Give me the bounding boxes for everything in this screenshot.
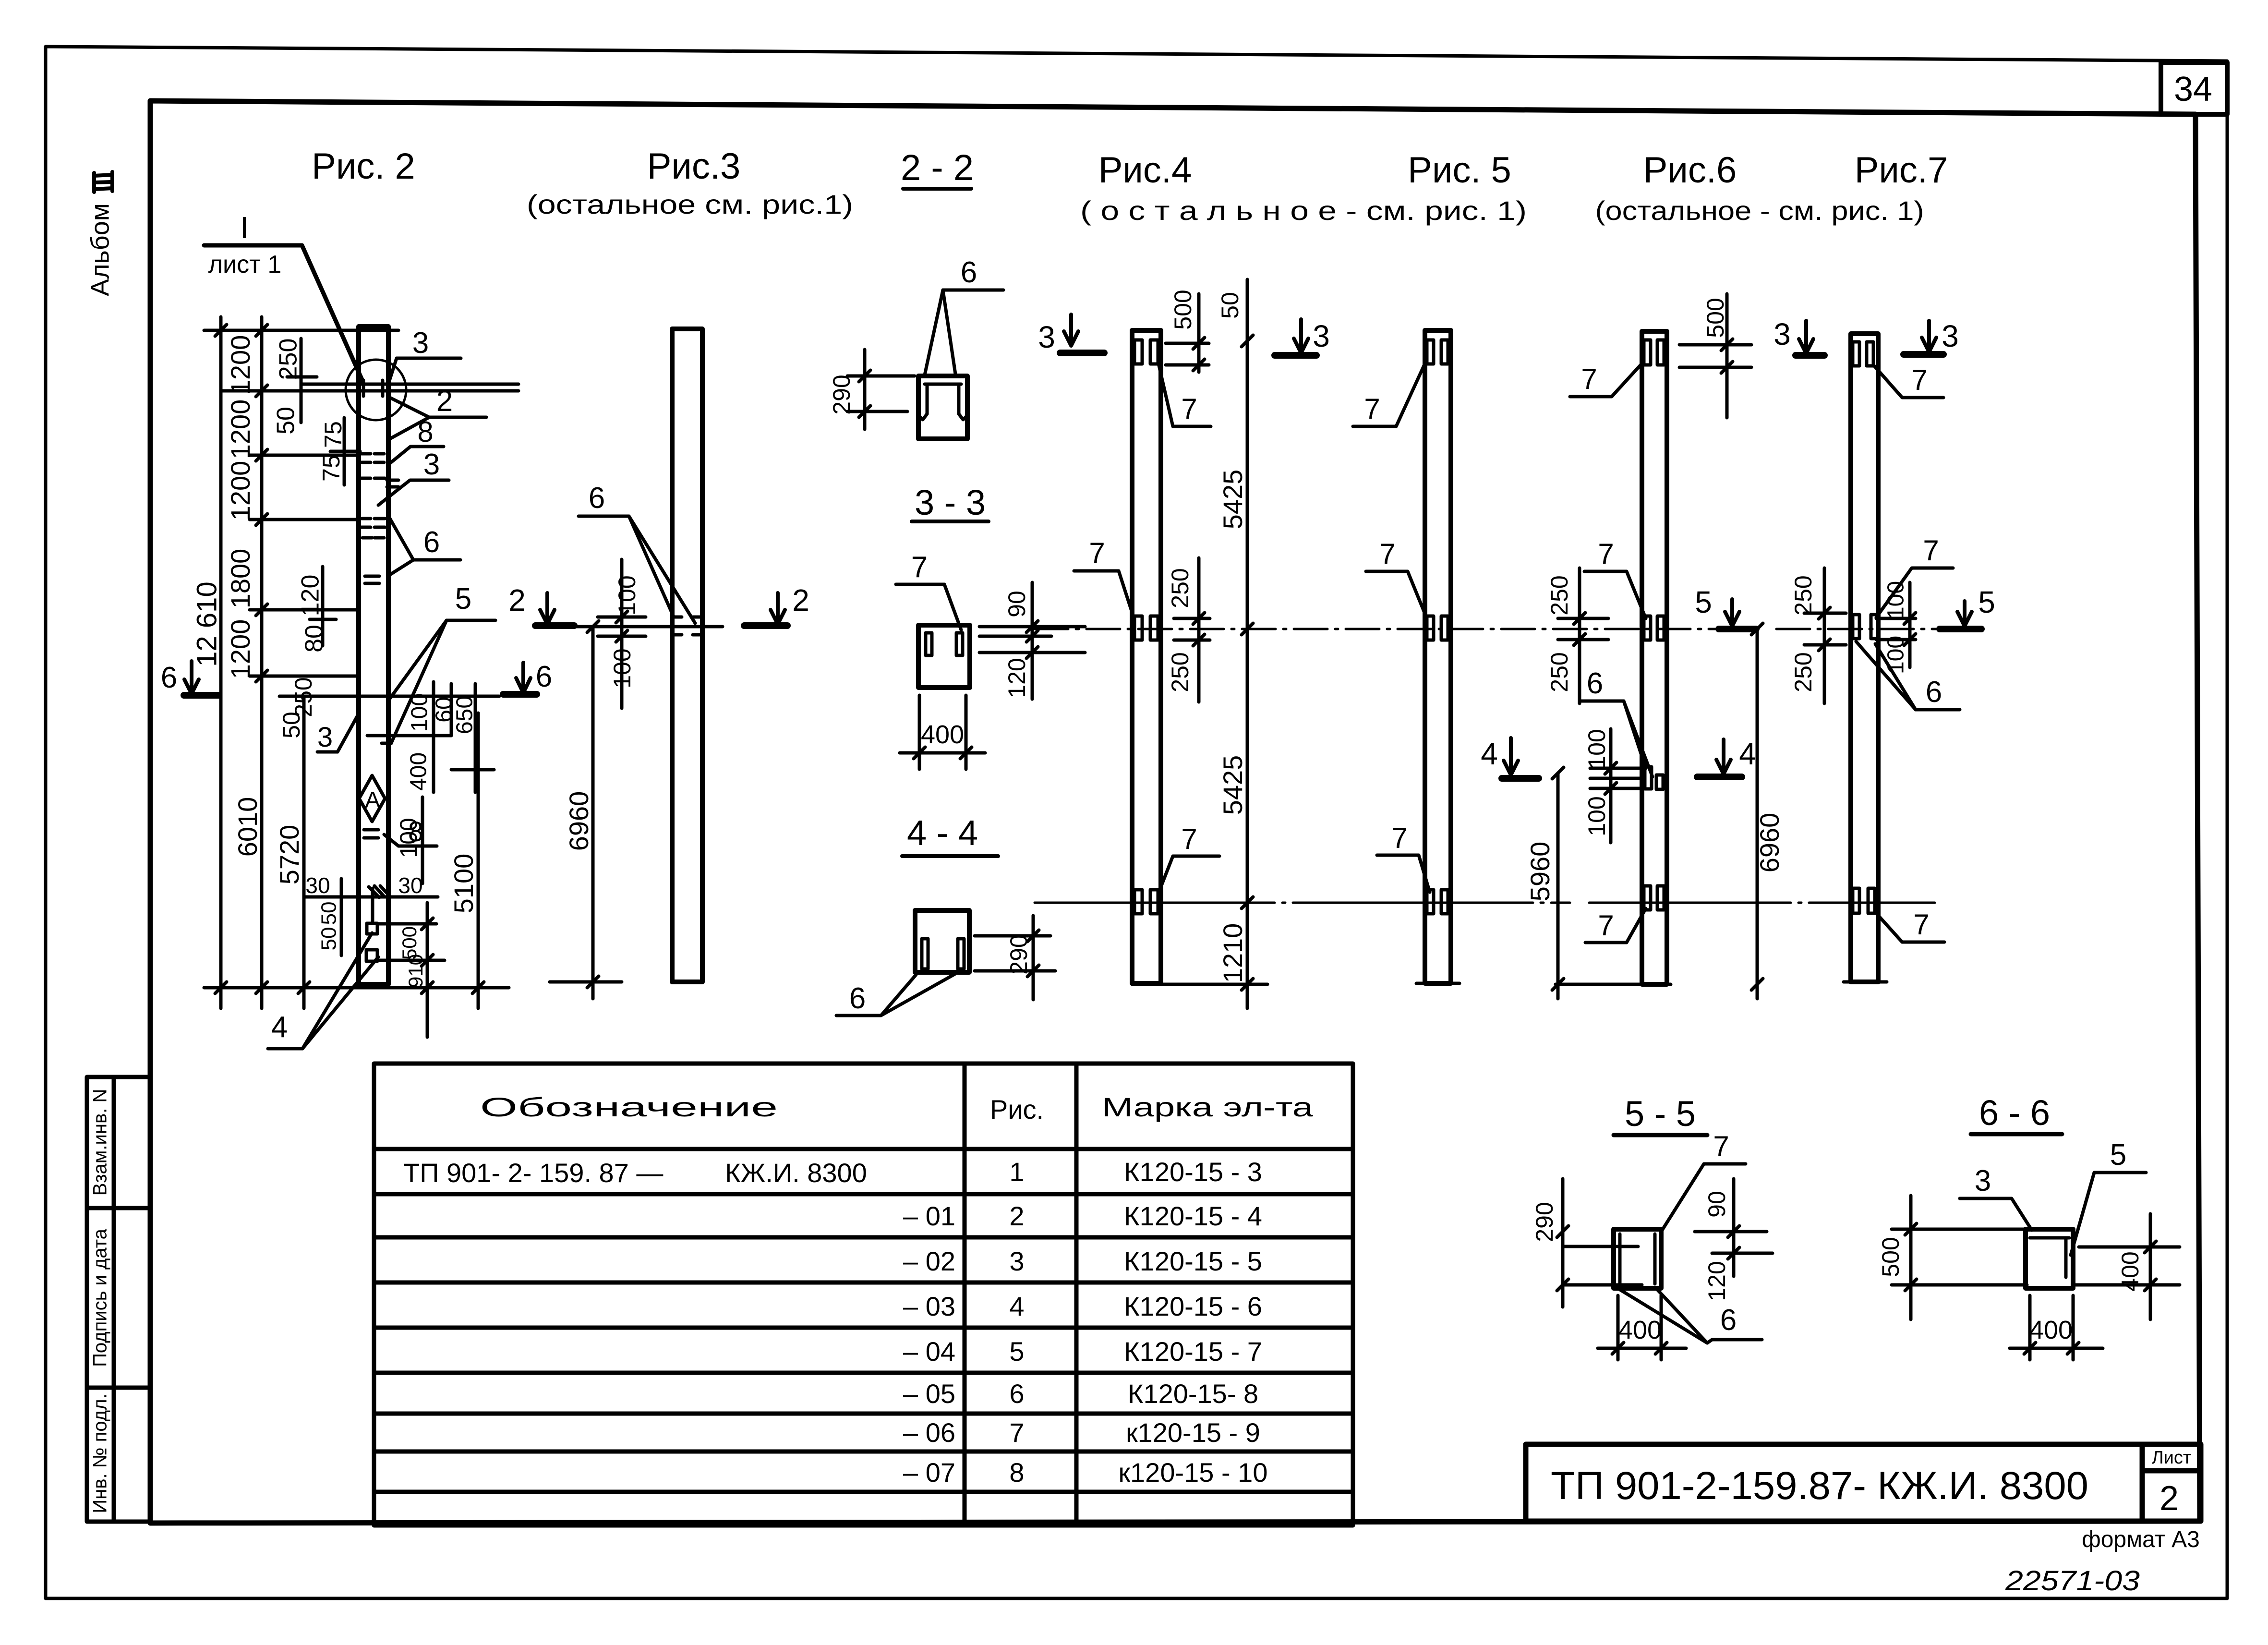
section marker 6 left xyxy=(161,661,219,695)
svg-text:Рис. 2: Рис. 2 xyxy=(312,146,415,187)
bottom tick xyxy=(1556,983,1671,986)
dim line 1200-chain vertical xyxy=(260,330,264,1008)
svg-text:7: 7 xyxy=(1713,1130,1729,1162)
svg-text:250: 250 xyxy=(1167,652,1194,692)
dim 500 xyxy=(1892,1196,2027,1319)
section 6-6 cut line xyxy=(279,695,499,698)
dim 250/250 xyxy=(1174,558,1210,702)
section 4-4 profile xyxy=(915,910,969,972)
svg-text:1200: 1200 xyxy=(225,461,255,521)
svg-text:1210: 1210 xyxy=(1218,923,1248,983)
svg-text:1200: 1200 xyxy=(225,399,255,460)
dim line 5720 xyxy=(302,696,306,1008)
dims 90 120 xyxy=(1695,1179,1773,1276)
leader 7 top xyxy=(1873,365,1943,398)
svg-text:– 02: – 02 xyxy=(903,1246,955,1276)
dim 5960 xyxy=(1552,767,1564,999)
detail callout I / лист 1 xyxy=(204,210,363,382)
svg-text:250: 250 xyxy=(1790,575,1817,615)
svg-text:6: 6 xyxy=(1587,667,1603,700)
svg-text:8: 8 xyxy=(417,416,433,448)
svg-text:ТП 901-2-159.87- КЖ.И. 8300: ТП 901-2-159.87- КЖ.И. 8300 xyxy=(1551,1464,2088,1508)
svg-text:6960: 6960 xyxy=(1754,813,1785,873)
dim line 12610 vertical xyxy=(219,330,223,1008)
dim 290 xyxy=(847,350,915,429)
dim 100/100 xyxy=(1876,582,1916,667)
svg-text:4: 4 xyxy=(1481,737,1498,771)
TABLE xyxy=(374,1064,1353,1525)
svg-text:7: 7 xyxy=(1581,363,1597,395)
svg-text:50: 50 xyxy=(272,407,300,435)
bottom tick line xyxy=(204,986,509,990)
bottom tick xyxy=(550,980,622,984)
leader 3 top xyxy=(390,358,461,379)
svg-text:30: 30 xyxy=(305,873,330,898)
svg-text:6: 6 xyxy=(423,526,440,559)
dim 250/250 xyxy=(1804,568,1846,703)
leader 7 top xyxy=(1158,363,1211,426)
dim 400 right xyxy=(2075,1214,2180,1319)
section marker 5 right xyxy=(1940,585,1995,629)
leader 7 mid xyxy=(1366,571,1427,618)
svg-text:7: 7 xyxy=(1598,909,1614,942)
dim 75 75 xyxy=(330,418,360,485)
svg-text:120: 120 xyxy=(297,575,325,617)
grade rhombus A xyxy=(359,775,385,822)
svg-text:I: I xyxy=(240,210,249,245)
section 5-5 profile xyxy=(1614,1229,1661,1288)
leader 7 top xyxy=(1570,363,1642,397)
svg-text:5425: 5425 xyxy=(1218,755,1248,815)
svg-text:2: 2 xyxy=(792,583,809,617)
svg-text:Взам.инв. N: Взам.инв. N xyxy=(90,1089,111,1196)
svg-text:400: 400 xyxy=(1618,1316,1662,1344)
svg-text:5: 5 xyxy=(1009,1336,1024,1367)
leader 3 mid xyxy=(378,480,449,505)
svg-text:4: 4 xyxy=(1739,737,1756,771)
svg-text:7: 7 xyxy=(1181,393,1197,425)
dim 400 xyxy=(900,695,985,769)
anchor plates xyxy=(366,886,387,961)
svg-text:6: 6 xyxy=(849,982,866,1015)
svg-text:3: 3 xyxy=(1773,317,1791,351)
svg-text:Рис.4: Рис.4 xyxy=(1098,150,1192,191)
section marker 2 right xyxy=(744,583,809,626)
svg-text:3: 3 xyxy=(1313,319,1330,353)
svg-text:3: 3 xyxy=(1038,320,1055,354)
svg-text:6960: 6960 xyxy=(564,791,594,851)
leader 7 bottom xyxy=(1585,908,1646,943)
svg-text:100: 100 xyxy=(614,575,640,615)
svg-text:50: 50 xyxy=(317,902,341,925)
svg-text:2: 2 xyxy=(2159,1479,2179,1518)
dim 100 low xyxy=(421,797,424,883)
svg-text:6010: 6010 xyxy=(232,797,263,857)
svg-text:лист 1: лист 1 xyxy=(208,251,282,278)
svg-text:6: 6 xyxy=(1720,1304,1737,1337)
svg-text:Рис.: Рис. xyxy=(990,1094,1044,1125)
svg-text:400: 400 xyxy=(2117,1251,2144,1291)
svg-text:6: 6 xyxy=(161,661,177,694)
svg-text:7: 7 xyxy=(1009,1417,1024,1448)
lower hooks xyxy=(1427,890,1448,914)
section 3-3 profile xyxy=(918,625,970,688)
svg-text:Обозначение: Обозначение xyxy=(480,1092,778,1122)
leader 6 xyxy=(389,518,460,575)
svg-text:1200: 1200 xyxy=(225,335,255,395)
dim 400 below xyxy=(1598,1295,1686,1360)
leader 6 xyxy=(1580,701,1653,777)
svg-text:100: 100 xyxy=(1583,796,1610,836)
dim 290 xyxy=(975,916,1055,1000)
leader 7 lower xyxy=(1377,855,1430,892)
section 2-2 profile xyxy=(918,376,967,439)
svg-text:5: 5 xyxy=(1695,585,1712,619)
leader 6 xyxy=(579,516,695,623)
svg-text:( о с т а л ь н о е - см. рис: ( о с т а л ь н о е - см. рис. 1) xyxy=(1080,195,1527,226)
svg-text:100: 100 xyxy=(1883,636,1909,674)
svg-text:3: 3 xyxy=(1942,319,1959,353)
svg-text:7: 7 xyxy=(911,551,928,584)
top hooks xyxy=(1427,340,1448,364)
svg-text:290: 290 xyxy=(1531,1202,1558,1242)
svg-text:3: 3 xyxy=(423,448,440,481)
leader 3 low xyxy=(317,715,358,752)
svg-text:80: 80 xyxy=(301,625,328,653)
svg-text:(остальное см. рис.1): (остальное см. рис.1) xyxy=(527,189,853,219)
svg-text:Подпись и дата: Подпись и дата xyxy=(90,1228,111,1367)
page number box 34 xyxy=(2161,62,2227,114)
svg-text:120: 120 xyxy=(1703,1261,1730,1301)
leader 6 xyxy=(836,974,955,1016)
leader 7 lower xyxy=(1158,856,1219,893)
mid hooks xyxy=(1853,615,1878,639)
svg-text:Рис.3: Рис.3 xyxy=(647,146,741,187)
svg-text:(остальное - см. рис. 1): (остальное - см. рис. 1) xyxy=(1595,195,1924,226)
svg-text:7: 7 xyxy=(1089,537,1105,569)
HEADERS xyxy=(312,146,1948,191)
leader 6 xyxy=(1856,641,1960,710)
mid hooks xyxy=(1644,616,1664,640)
dim 250 top xyxy=(287,339,317,423)
svg-text:2: 2 xyxy=(1009,1201,1024,1231)
dim 500/50 top xyxy=(1166,294,1209,372)
chain tick lines xyxy=(250,391,359,676)
svg-text:6: 6 xyxy=(536,660,552,693)
svg-text:120: 120 xyxy=(1003,658,1030,698)
svg-text:5: 5 xyxy=(455,582,471,616)
svg-text:к120-15 - 10: к120-15 - 10 xyxy=(1119,1457,1268,1488)
leader 7 top xyxy=(1353,363,1425,426)
leader 8 xyxy=(390,447,444,463)
detail circle xyxy=(346,360,406,420)
bottom tick xyxy=(1844,980,1887,984)
svg-text:2 - 2: 2 - 2 xyxy=(901,147,974,188)
leader 3 xyxy=(1960,1198,2032,1230)
svg-text:5425: 5425 xyxy=(1218,470,1248,530)
svg-text:5960: 5960 xyxy=(1525,842,1555,902)
dim 100/100 xyxy=(1590,729,1642,843)
svg-text:100: 100 xyxy=(1883,581,1909,619)
svg-text:250: 250 xyxy=(1167,568,1194,608)
svg-text:290: 290 xyxy=(1005,934,1032,974)
leader 8 low xyxy=(364,830,437,846)
lower hooks xyxy=(1644,886,1664,910)
dims 100 60 650 xyxy=(367,682,494,792)
svg-text:7: 7 xyxy=(1364,393,1380,425)
leader 7 mid xyxy=(1584,571,1646,618)
svg-text:650: 650 xyxy=(452,696,478,734)
svg-text:Лист: Лист xyxy=(2152,1448,2192,1468)
svg-text:290: 290 xyxy=(828,375,855,414)
svg-text:50: 50 xyxy=(317,927,341,951)
section marker 2 left xyxy=(508,583,574,626)
leader 7 xyxy=(1662,1164,1746,1230)
section marker 3 left xyxy=(1038,314,1104,354)
svg-text:30: 30 xyxy=(398,873,422,898)
section marker 3 right xyxy=(1904,319,1959,354)
section marker 3 right xyxy=(1275,319,1330,355)
svg-text:75: 75 xyxy=(318,455,345,482)
left stamp boxes xyxy=(87,1077,150,1522)
svg-text:5 - 5: 5 - 5 xyxy=(1625,1094,1696,1134)
svg-text:формат А3: формат А3 xyxy=(2082,1527,2200,1552)
svg-text:– 01: – 01 xyxy=(903,1201,955,1231)
svg-text:22571-03: 22571-03 xyxy=(2005,1565,2140,1597)
mid hooks xyxy=(1134,616,1158,640)
svg-text:4: 4 xyxy=(1009,1291,1024,1321)
column K120-15-9 elevation xyxy=(1851,334,1878,982)
svg-text:Альбом: Альбом xyxy=(85,203,114,296)
dim 120 xyxy=(310,567,336,646)
dim 6960 xyxy=(1751,623,1763,999)
svg-text:910: 910 xyxy=(404,954,427,988)
svg-text:400: 400 xyxy=(921,720,964,749)
section marker 3 left xyxy=(1773,317,1824,355)
section marker 4 left xyxy=(1481,737,1539,778)
svg-text:250: 250 xyxy=(1790,652,1817,692)
svg-text:– 06: – 06 xyxy=(903,1417,955,1448)
rebar marks top xyxy=(361,380,398,583)
leader 7 xyxy=(896,584,961,630)
leader 2 xyxy=(389,398,486,439)
svg-text:4 - 4: 4 - 4 xyxy=(907,813,978,853)
svg-text:Рис.6: Рис.6 xyxy=(1643,150,1737,191)
column K120-15-6 elevation xyxy=(1132,330,1161,983)
top hooks xyxy=(1644,340,1664,365)
svg-text:7: 7 xyxy=(1391,822,1407,854)
svg-text:1: 1 xyxy=(1009,1157,1024,1187)
dim 100/100 xyxy=(598,559,646,708)
svg-text:КЖ.И. 8300: КЖ.И. 8300 xyxy=(725,1158,867,1188)
leader 5 xyxy=(390,620,495,742)
svg-text:1200: 1200 xyxy=(225,619,255,679)
svg-text:500: 500 xyxy=(1877,1237,1904,1277)
svg-text:50: 50 xyxy=(278,712,305,738)
column K120-15-4 elevation xyxy=(359,327,388,984)
column K120-15-7 elevation xyxy=(1425,330,1451,983)
svg-text:Рис. 5: Рис. 5 xyxy=(1408,150,1511,191)
svg-text:1800: 1800 xyxy=(225,549,255,609)
dim 250/250 xyxy=(1558,568,1608,703)
svg-text:6: 6 xyxy=(961,256,977,289)
svg-text:100: 100 xyxy=(1583,729,1610,769)
svg-text:Марка эл-та: Марка эл-та xyxy=(1102,1092,1314,1122)
svg-text:7: 7 xyxy=(1923,534,1939,567)
leader 6 xyxy=(1618,1289,1762,1343)
svg-text:250: 250 xyxy=(1546,652,1573,692)
svg-text:8: 8 xyxy=(408,816,423,847)
svg-text:8: 8 xyxy=(1009,1457,1024,1488)
svg-text:250: 250 xyxy=(290,677,317,717)
svg-text:3 - 3: 3 - 3 xyxy=(915,483,986,522)
column K120-15-8 elevation xyxy=(1642,331,1667,984)
dimension line top xyxy=(204,317,398,344)
svg-text:75: 75 xyxy=(320,421,347,448)
svg-text:К120-15 - 5: К120-15 - 5 xyxy=(1124,1246,1262,1276)
svg-text:– 04: – 04 xyxy=(903,1336,955,1367)
bottom tick xyxy=(1416,982,1460,985)
section 2-2 cut line xyxy=(567,625,723,629)
dim 400 below xyxy=(2010,1295,2103,1360)
leader 6 xyxy=(925,290,1003,375)
album label xyxy=(85,172,114,296)
main dim line 5425/5425/1210 xyxy=(1242,279,1253,1008)
top joint lines xyxy=(221,384,519,391)
dim line 5100 xyxy=(477,713,480,1008)
svg-text:7: 7 xyxy=(1913,908,1929,941)
svg-text:Инв. № подл.: Инв. № подл. xyxy=(90,1393,111,1513)
svg-text:2: 2 xyxy=(508,583,526,617)
svg-text:К120-15- 8: К120-15- 8 xyxy=(1128,1379,1258,1409)
lower hooks xyxy=(1853,888,1875,913)
section marker 5 right xyxy=(1695,585,1756,629)
svg-text:6: 6 xyxy=(1009,1379,1024,1409)
column K120-15-5 elevation xyxy=(672,329,702,982)
svg-text:34: 34 xyxy=(2174,70,2212,109)
top hooks xyxy=(1853,342,1873,366)
svg-text:– 07: – 07 xyxy=(903,1457,955,1488)
svg-text:к120-15 - 9: к120-15 - 9 xyxy=(1126,1417,1260,1448)
bottom tick xyxy=(1132,983,1267,986)
svg-text:250: 250 xyxy=(1546,575,1573,615)
marks at cut xyxy=(675,617,700,635)
svg-text:500: 500 xyxy=(1170,290,1196,329)
leader 7 mid (from left) xyxy=(1074,571,1134,618)
lower hooks xyxy=(1134,890,1158,914)
svg-text:5: 5 xyxy=(2110,1138,2126,1172)
svg-text:7: 7 xyxy=(1181,823,1197,855)
leader 7 mid xyxy=(1876,568,1953,617)
4-4 level hooks xyxy=(1645,767,1663,789)
svg-text:7: 7 xyxy=(1379,538,1395,570)
svg-text:250: 250 xyxy=(275,339,302,380)
svg-text:Рис.7: Рис.7 xyxy=(1855,150,1948,191)
dim 290 xyxy=(1557,1179,1642,1307)
svg-text:90: 90 xyxy=(1003,591,1030,617)
svg-text:К120-15 - 3: К120-15 - 3 xyxy=(1124,1157,1262,1187)
svg-text:100: 100 xyxy=(609,648,636,688)
svg-text:7: 7 xyxy=(1911,364,1927,396)
top hooks xyxy=(1134,340,1158,364)
svg-text:6: 6 xyxy=(1926,676,1942,709)
dim 6960 xyxy=(587,621,599,999)
leader 4 xyxy=(268,933,378,1049)
svg-text:5720: 5720 xyxy=(274,825,304,885)
section marker 6 (right of fig2) xyxy=(503,660,552,694)
svg-text:А: А xyxy=(365,787,380,813)
svg-text:400: 400 xyxy=(406,752,432,791)
svg-text:12 610: 12 610 xyxy=(191,581,222,666)
leader 7 bottom xyxy=(1876,913,1944,942)
leader 5 xyxy=(2071,1173,2146,1255)
svg-text:– 03: – 03 xyxy=(903,1291,955,1321)
svg-text:3: 3 xyxy=(317,722,333,753)
svg-text:– 05: – 05 xyxy=(903,1379,955,1409)
svg-text:3: 3 xyxy=(1975,1164,1991,1197)
svg-text:5100: 5100 xyxy=(448,854,479,914)
svg-text:3: 3 xyxy=(412,327,429,360)
svg-text:К120-15 - 7: К120-15 - 7 xyxy=(1124,1336,1262,1367)
svg-text:400: 400 xyxy=(2029,1316,2073,1344)
svg-text:50: 50 xyxy=(1217,292,1243,319)
dims 90 120 xyxy=(979,582,1085,699)
title block xyxy=(1526,1444,2201,1521)
svg-text:3: 3 xyxy=(1009,1246,1024,1276)
svg-text:К120-15 - 6: К120-15 - 6 xyxy=(1124,1291,1262,1321)
svg-text:5: 5 xyxy=(1978,585,1995,619)
svg-text:К120-15 - 4: К120-15 - 4 xyxy=(1124,1201,1262,1231)
svg-text:2: 2 xyxy=(436,385,453,418)
svg-text:ТП 901- 2- 159. 87 —: ТП 901- 2- 159. 87 — xyxy=(403,1158,663,1188)
svg-text:4: 4 xyxy=(271,1011,288,1044)
svg-text:6: 6 xyxy=(589,482,605,515)
svg-text:500: 500 xyxy=(1702,298,1729,338)
svg-text:90: 90 xyxy=(1703,1191,1730,1218)
dim 500 top xyxy=(1679,294,1751,418)
mid hooks xyxy=(1427,616,1448,640)
section 6-6 profile xyxy=(2026,1229,2073,1288)
svg-text:6 - 6: 6 - 6 xyxy=(1979,1093,2050,1133)
svg-text:7: 7 xyxy=(1598,538,1614,570)
section marker 4 right xyxy=(1697,737,1756,777)
marks at 6-6 level xyxy=(382,736,391,743)
bottom cluster dims xyxy=(304,879,445,1037)
